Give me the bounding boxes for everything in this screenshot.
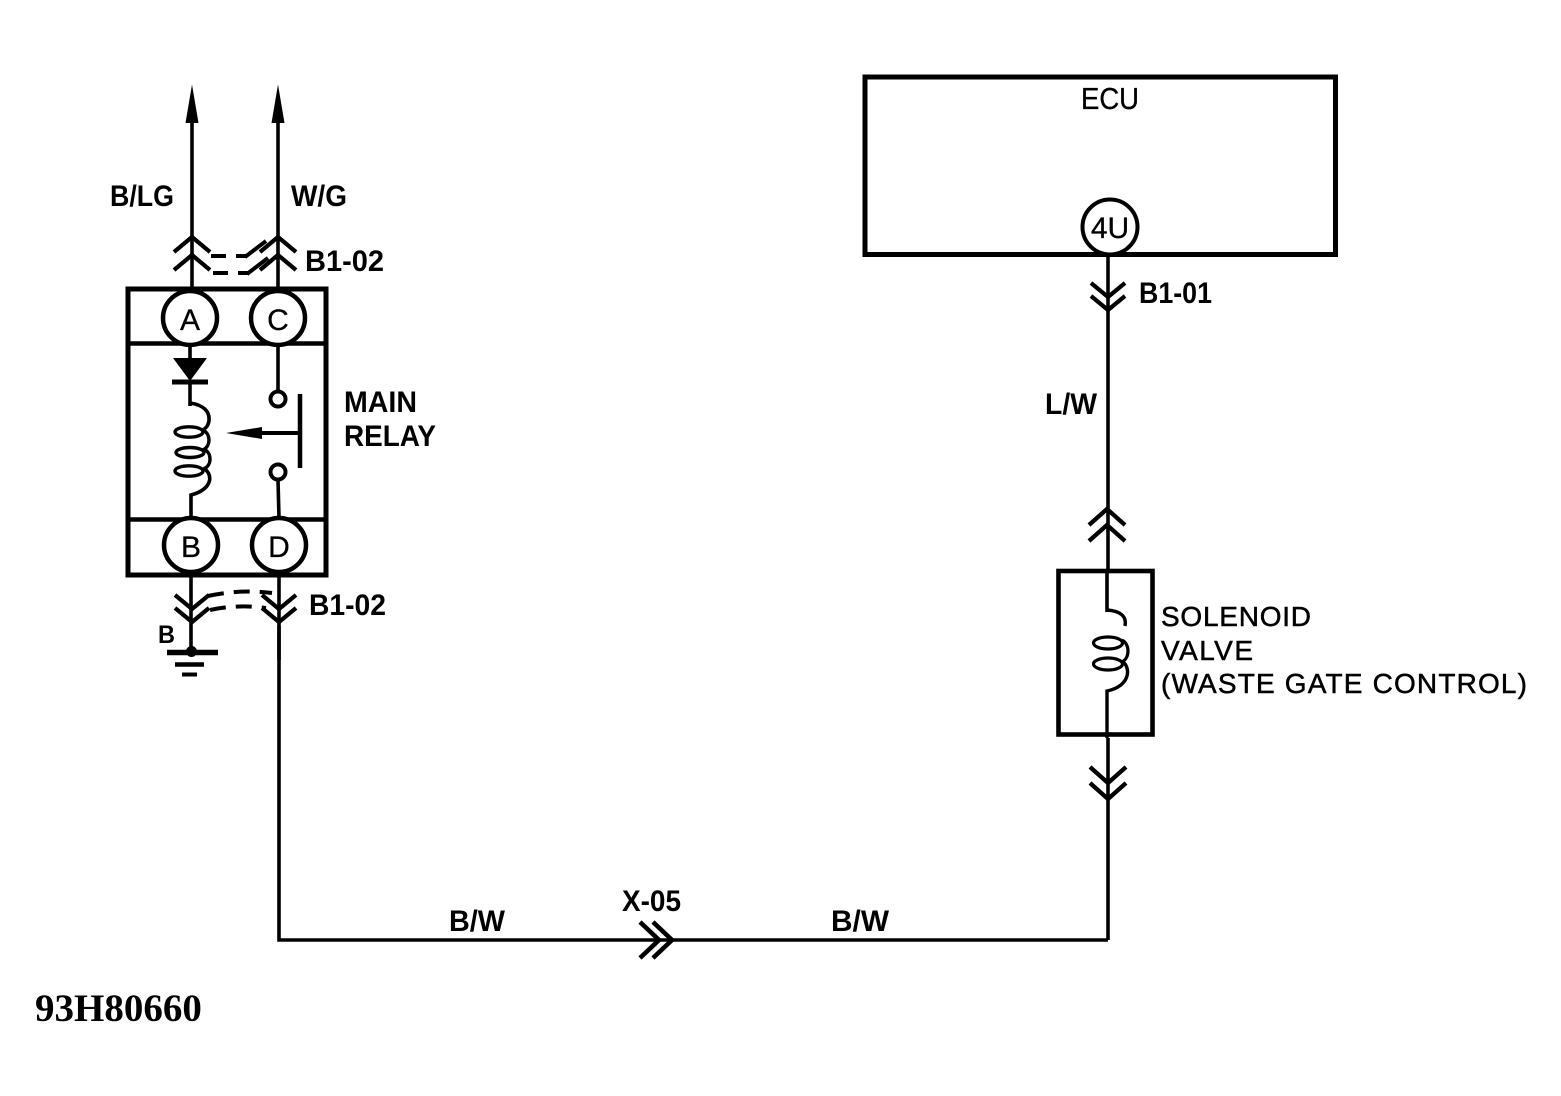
- connector B1-01 (chevrons pointing down): [1091, 283, 1125, 310]
- label B1-01: [1139, 277, 1212, 310]
- connector X-05 (chevrons pointing right): [640, 922, 672, 958]
- svg-text:B1-02: B1-02: [309, 589, 386, 622]
- wire B/W from relay D down and across: [279, 626, 1108, 940]
- relay terminal C: [251, 291, 305, 345]
- svg-text:MAIN: MAIN: [344, 386, 417, 419]
- svg-text:B: B: [158, 621, 175, 649]
- svg-text:B/LG: B/LG: [110, 180, 174, 213]
- svg-text:L/W: L/W: [1045, 388, 1098, 421]
- svg-text:B1-01: B1-01: [1139, 277, 1212, 310]
- label ECU: [1081, 81, 1139, 116]
- relay actuating arrow: [226, 427, 300, 439]
- figure number 93H80660: [35, 987, 202, 1030]
- connector B1-02 (upper, chevrons on both wires with dashed tie): [174, 237, 296, 274]
- label B/LG: [110, 180, 174, 213]
- svg-text:(WASTE GATE CONTROL): (WASTE GATE CONTROL): [1161, 668, 1527, 699]
- solenoid valve box: [1059, 571, 1153, 735]
- svg-text:B/W: B/W: [831, 905, 890, 938]
- label X-05: [622, 885, 681, 918]
- relay terminal B: [164, 518, 218, 572]
- svg-text:SOLENOID: SOLENOID: [1161, 601, 1311, 632]
- wire up to solenoid valve: [1106, 738, 1110, 940]
- svg-text:VALVE: VALVE: [1161, 635, 1253, 666]
- svg-text:B1-02: B1-02: [305, 245, 384, 278]
- svg-text:93H80660: 93H80660: [35, 987, 202, 1030]
- svg-text:B/W: B/W: [449, 905, 506, 938]
- svg-text:A: A: [180, 304, 200, 337]
- svg-text:4U: 4U: [1091, 212, 1129, 245]
- ECU box: [865, 77, 1336, 255]
- diode inside relay: [172, 344, 208, 406]
- wire W/G to battery (right feed, arrow up): [272, 85, 285, 290]
- svg-text:RELAY: RELAY: [344, 420, 436, 453]
- label B (ground wire): [158, 621, 175, 649]
- solenoid coil: [1094, 569, 1129, 738]
- svg-text:C: C: [267, 304, 289, 337]
- svg-text:W/G: W/G: [291, 180, 347, 213]
- svg-text:D: D: [268, 531, 290, 564]
- connector B1-02 (lower, chevrons on both wires with dashed tie): [175, 575, 296, 660]
- relay coil L1: [175, 403, 210, 518]
- label B1-02 lower: [309, 589, 386, 622]
- svg-text:B: B: [181, 531, 201, 564]
- connector chevrons below solenoid valve (pointing down): [1090, 767, 1126, 799]
- main relay box: [128, 289, 326, 575]
- label B/W left: [449, 905, 506, 938]
- wire B/LG to battery (left feed, arrow up): [186, 85, 199, 290]
- ECU pin 4U: [1083, 200, 1138, 255]
- label W/G: [291, 180, 347, 213]
- relay terminal A: [163, 291, 217, 345]
- svg-text:X-05: X-05: [622, 885, 681, 918]
- connector chevrons above solenoid valve (pointing up): [1089, 509, 1125, 541]
- label MAIN RELAY: [344, 386, 436, 453]
- ground: [167, 646, 218, 675]
- label B/W right: [831, 905, 890, 938]
- wire L/W from ECU down: [1106, 255, 1110, 569]
- label B1-02 upper: [305, 245, 384, 278]
- relay terminal D: [252, 518, 306, 572]
- relay switch contacts and armature: [271, 344, 301, 518]
- svg-text:ECU: ECU: [1081, 81, 1139, 116]
- label L/W: [1045, 388, 1098, 421]
- label SOLENOID VALVE (WASTE GATE CONTROL): [1161, 601, 1527, 699]
